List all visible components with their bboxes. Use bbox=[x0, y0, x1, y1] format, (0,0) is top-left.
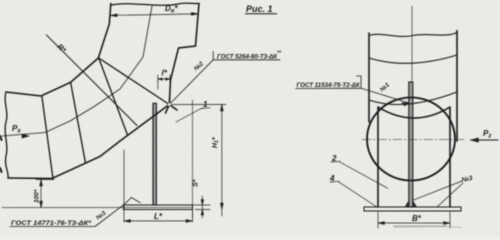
label 4 leader bbox=[330, 181, 377, 207]
pipe right edge (upper outer chords) bbox=[166, 4, 200, 114]
dimension H1* bbox=[172, 105, 226, 217]
dimension L* bbox=[124, 150, 193, 222]
curved centerline of elbow bbox=[2, 6, 152, 136]
vertical pipe right edge bbox=[456, 31, 458, 142]
long thin extension line at base bottom bbox=[2, 207, 192, 209]
weld seam S1 bbox=[42, 97, 53, 179]
dimension B* bbox=[378, 212, 450, 228]
faint scan streak bottom right bbox=[394, 225, 446, 227]
pipe top end face (wavy break) bbox=[111, 3, 199, 5]
dimension l* bbox=[158, 75, 170, 103]
underline of GOST 14771 bbox=[10, 226, 95, 228]
rib (right view, edge-on) bbox=[409, 82, 413, 207]
weld leader No1 to GOST 11534 shelf bbox=[296, 76, 410, 103]
seam arc 1 bbox=[369, 55, 457, 63]
label 2 leader bbox=[331, 161, 388, 188]
Pz arrow bbox=[471, 139, 499, 141]
dimension Dn* bbox=[110, 14, 198, 16]
extension line right of support bbox=[192, 100, 194, 218]
horizontal centerline (dash-dot) bbox=[362, 139, 466, 141]
weld leaders No3 (right view) bbox=[413, 181, 463, 207]
base plate (left view) bbox=[124, 205, 193, 210]
dimension 100* bbox=[36, 180, 54, 208]
vertical centerline bbox=[411, 6, 413, 81]
Px arrow on centerline bbox=[22, 134, 29, 138]
pipe lower outer edge chords bbox=[8, 105, 177, 179]
radius line R* bbox=[46, 35, 137, 126]
seam arc 2 bbox=[369, 92, 457, 105]
saddle plate 2 (face view) bbox=[378, 107, 450, 207]
label 1 leader bbox=[176, 108, 202, 122]
weld seam S2 bbox=[71, 82, 86, 163]
pipe inner edge (polyline chords) bbox=[6, 4, 111, 97]
rib bottom weld fillets bbox=[405, 201, 417, 208]
edge scan artifacts bbox=[0, 136, 2, 172]
node: meeting point circle bbox=[168, 103, 172, 107]
base plate 4 (right view) bbox=[364, 207, 461, 211]
dimension S* bbox=[190, 196, 210, 218]
weld leader No3 (left view) with caret arrow bbox=[95, 198, 140, 227]
weld leader No2 to GOST 5264 shelf bbox=[169, 52, 280, 105]
pipe left break line (wavy) bbox=[5, 92, 8, 178]
pipe cross-section circle bbox=[367, 98, 455, 181]
pipe top break (wavy) bbox=[369, 33, 457, 37]
weld seam S3 bbox=[99, 58, 128, 135]
vertical pipe left edge bbox=[368, 33, 370, 122]
weld seam S4 bbox=[99, 58, 170, 105]
support rib (left view) bbox=[153, 103, 156, 205]
paper grain overlay bbox=[0, 0, 1, 1]
